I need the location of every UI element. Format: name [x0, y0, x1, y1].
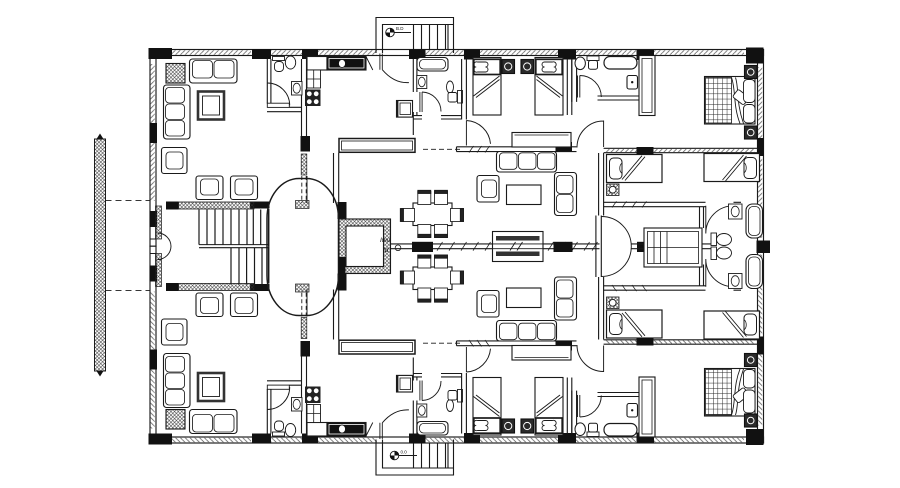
window hatch top wall living [172, 50, 251, 54]
living armchair bottom2 seat [235, 179, 253, 195]
level marker bottom circle [390, 451, 399, 460]
column top wall B [302, 49, 318, 59]
living bath toilet bowl [275, 62, 284, 72]
ensuite wall sink dot [631, 81, 633, 83]
master nightstand 2 lamp [747, 129, 754, 136]
bedroom2 bed 2 diagonal [723, 155, 747, 181]
window hatch top wall master [652, 50, 744, 54]
kitchen side counter [307, 70, 321, 88]
setback dashed line upper [106, 199, 151, 201]
stair bulkhead top protrusion [376, 18, 454, 54]
kitchen counter inner line [329, 59, 364, 69]
wc toilet tank [458, 91, 463, 104]
stair lower flight treads [231, 248, 262, 285]
column kitchen wall [301, 136, 311, 152]
column center wall A [412, 242, 433, 252]
column top-left corner [149, 48, 173, 59]
ensuite bottom wall [598, 96, 639, 100]
column top wall F [637, 50, 655, 60]
dining chair top1 [418, 190, 431, 204]
cabinet stripe bottom [496, 252, 540, 257]
corridor cabinet [397, 101, 413, 118]
master bed [705, 77, 756, 125]
living bath wall sink [292, 82, 303, 96]
wc bathtub inner [420, 60, 446, 70]
column corridor [338, 202, 347, 219]
master bed fold [732, 78, 744, 124]
level marker bottom fill [390, 451, 399, 460]
ensuite door [578, 76, 602, 98]
bath core wall ticks [612, 201, 647, 207]
stair hall column left [166, 202, 179, 210]
bedroom2 bed 1 pillow [610, 158, 623, 179]
ensuite sink [589, 61, 598, 70]
ensuite toilet [575, 57, 585, 70]
column right wall center [757, 241, 771, 254]
living armchair left [162, 148, 188, 174]
corridor cabinet inner [400, 103, 411, 115]
center corridor wall lines [391, 244, 600, 249]
window hatch left wall upper [150, 64, 154, 123]
kitchen counter end cap [366, 57, 373, 71]
main entry door arc [382, 70, 409, 83]
living corner sofa [164, 85, 191, 139]
column center wall C [637, 242, 656, 252]
living sofa 2seat top [190, 59, 238, 83]
twin bed 2 pillow [542, 62, 556, 72]
living sofa 2seat cushions [193, 61, 235, 79]
wc sink [417, 76, 427, 89]
living corner sofa cushions [166, 88, 185, 137]
hall sofa 3seat [497, 152, 557, 173]
corridor right wall [334, 153, 339, 203]
cabinet center lines [493, 242, 544, 251]
lobby oval arch [267, 179, 339, 316]
bath core toilet bowl [717, 234, 732, 246]
hall sideboard inner [342, 141, 413, 150]
twin room left wall [462, 59, 467, 120]
kitchen appliance [307, 70, 321, 88]
column left wall B [150, 211, 158, 227]
bath core top wall [604, 202, 742, 206]
bedroom2 side table hatched [607, 184, 620, 196]
dining table [413, 203, 452, 226]
master bed tossed pillow [732, 89, 749, 105]
corridor window hatch band [301, 154, 307, 175]
hall door arc upper [601, 217, 631, 247]
dining chair top2 [435, 190, 448, 204]
twin bed 1 [473, 58, 501, 116]
living bath bottom wall [267, 107, 302, 111]
ensuite wall sink [627, 76, 638, 90]
bedroom2 bed 2 [704, 154, 760, 182]
bedroom2 bed 1 [607, 155, 663, 183]
living bath toilet [273, 57, 285, 61]
bath core toilet tank [711, 233, 717, 246]
center bath wall lines [631, 244, 711, 249]
kitchen sink tap [345, 62, 348, 65]
window hatch right wall master [758, 67, 762, 138]
level marker top circle [386, 28, 395, 37]
cabinet stripe top [496, 236, 540, 241]
living bath sink [285, 56, 295, 69]
wc left wall [413, 59, 417, 135]
living center table [198, 92, 224, 120]
wc sink bowl [418, 77, 425, 87]
column top-right corner [746, 48, 764, 64]
outer left wall [150, 50, 156, 247]
dining chair bottom2 [435, 225, 448, 238]
column top wall C [409, 50, 426, 60]
stair landing double line [199, 245, 269, 248]
twin wardrobe inner [515, 134, 569, 136]
living bath left wall [267, 59, 271, 104]
living armchair bottom2 [231, 176, 258, 200]
bath core sink bowl [731, 206, 739, 217]
corridor wall leaf line [306, 176, 308, 203]
lobby wall hatched stub [296, 201, 310, 209]
stair core right wall [268, 209, 270, 246]
master wardrobe [639, 56, 655, 116]
svg-text:0.0: 0.0 [401, 450, 408, 455]
entry side window hatch [156, 206, 162, 239]
boundary wall bottom point [97, 371, 104, 377]
living bath door leaf [267, 103, 289, 107]
living armchair bottom1 [196, 176, 223, 200]
svg-text:Iwu: Iwu [380, 237, 391, 244]
living hatched side table [166, 64, 185, 84]
kitchen counter black part [327, 57, 366, 71]
stair treads top protrusion [414, 25, 446, 50]
column left wall A [150, 123, 158, 143]
bath core tub [746, 204, 763, 238]
master bed blanket [706, 78, 732, 124]
master lobby wall [599, 153, 604, 216]
twin nightstand 1 lamp [505, 63, 512, 70]
column top wall A [252, 49, 271, 59]
window hatch left wall lower [150, 143, 154, 201]
svg-text:B.D: B.D [396, 26, 404, 31]
window hatch top wall bath [267, 50, 302, 54]
entry door jambs [150, 239, 157, 254]
living armchair left seat [166, 152, 183, 169]
hall coffee table [507, 185, 542, 205]
boundary wall top point [97, 134, 104, 140]
entry double door leaf arc [158, 233, 172, 246]
column center wall B [554, 242, 573, 252]
twin room door [466, 121, 490, 146]
master lobby door arc [577, 121, 604, 148]
living bath door arc [267, 83, 289, 105]
wc shelf [448, 93, 457, 103]
kitchen-living divider wall [302, 59, 307, 137]
twin bed 1 blanket diagonal [474, 76, 500, 98]
living center table inner [203, 96, 220, 115]
ensuite left wall [572, 59, 577, 102]
master nightstand 1 [745, 66, 758, 79]
column hall wall F [637, 147, 654, 155]
mirrored lower half [149, 246, 765, 475]
hall sofa 2seat [555, 173, 577, 216]
twin-master divider wall [567, 59, 572, 115]
twin nightstand 2 [521, 60, 534, 74]
master bed pillow 2 [744, 105, 756, 124]
column hall wall [556, 142, 573, 152]
wc bottom wall [413, 116, 461, 119]
center striped cabinet [493, 232, 544, 262]
bath core sink [729, 204, 743, 219]
twin bed 2 [535, 58, 563, 116]
outer right wall [758, 50, 764, 247]
bath core door [706, 206, 734, 234]
hall half-circle doors wall [596, 216, 601, 278]
living bath wall sink bowl [293, 83, 300, 93]
wc door arc [422, 92, 441, 112]
level marker top fill [386, 28, 395, 37]
column top wall E [558, 50, 576, 60]
dining chair left [400, 209, 414, 222]
hall armchair seat [482, 180, 497, 198]
hall top wall ticks [469, 146, 490, 153]
hall armchair [477, 176, 499, 203]
twin nightstand 1 [502, 60, 515, 74]
bedroom2 top wall hatch [605, 149, 755, 152]
window hatch top wall ensuite [576, 50, 636, 54]
wc bathtub [417, 58, 448, 72]
level marker bottom leader [399, 455, 417, 457]
hall sofa cushions [500, 153, 556, 170]
window hatch top wall wc [425, 50, 464, 54]
bath corridor wall stub [700, 207, 704, 228]
center wardrobe lines [648, 232, 699, 264]
bedroom2 side table circle [609, 186, 616, 193]
stair upper flight treads [199, 210, 261, 245]
boundary wall hatched strip [95, 139, 106, 371]
column top wall D [464, 50, 480, 60]
twin wardrobe [512, 133, 571, 148]
bedroom2 bed 2 pillow [744, 158, 757, 179]
twin bed 1 pillow [474, 62, 488, 72]
corridor dashed opening [302, 176, 306, 203]
kitchen sink [339, 60, 346, 68]
outer top wall [150, 50, 764, 56]
master bed pillow 1 [744, 80, 756, 103]
twin bed 2 blanket diagonal [537, 76, 563, 98]
svg-text:Id: Id [383, 247, 389, 254]
ensuite bathtub [604, 57, 637, 70]
center wall ticks [437, 242, 598, 251]
master nightstand 2 [745, 126, 758, 139]
window hatch top wall kitchen [318, 50, 377, 54]
hall top wall [457, 147, 577, 152]
main entry door leaf [380, 54, 382, 70]
master wardrobe inner [642, 59, 652, 113]
hall wall dashed opening [423, 148, 460, 150]
wc door leaf [420, 92, 422, 112]
ensuite sink top bar [587, 56, 599, 61]
living armchair bottom1 seat [201, 179, 219, 195]
hall sideboard wall [339, 139, 415, 153]
bath core tub inner [749, 207, 761, 236]
twin bed 1 pillow band [474, 59, 500, 74]
master nightstand 1 lamp [747, 69, 754, 76]
hall door arc lower [601, 247, 631, 277]
shaft black column [339, 257, 346, 275]
dining chair bottom1 [418, 225, 431, 238]
window hatch top wall twin-bedroom [480, 50, 558, 54]
bedroom2 bed 1 diagonal [622, 156, 645, 181]
bedroom2 bed 1 pillow notch [620, 163, 622, 174]
kitchen counter white part [307, 57, 327, 71]
twin nightstand 2 lamp [524, 63, 531, 70]
shaft door mark [395, 245, 401, 251]
column right wall A [757, 138, 764, 156]
bedroom2 bed 2 pillow notch [744, 163, 746, 174]
center wardrobe [644, 228, 702, 267]
shaft hatched walls [339, 219, 391, 274]
window hatch right wall bedroom2 [758, 158, 762, 238]
center wardrobe inner [648, 232, 699, 264]
setback dashed line lower [106, 289, 151, 291]
hall sofa 2seat cushions [557, 176, 574, 213]
stair hall sill hatch [179, 202, 255, 209]
dining chair right [451, 209, 464, 222]
shaft inner [346, 226, 384, 267]
kitchen stove [305, 90, 321, 107]
wc toilet bowl [447, 81, 454, 93]
bedroom2 top wall [604, 148, 758, 152]
twin bed 2 pillow band [536, 59, 562, 74]
stove burners [307, 91, 319, 104]
level marker top leader [394, 32, 411, 34]
stair hall column right [250, 202, 270, 209]
